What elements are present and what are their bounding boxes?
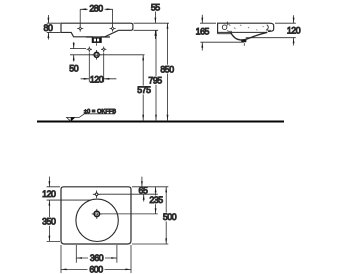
front view drain fitting — [92, 38, 101, 43]
side view detail marks — [234, 25, 264, 31]
dim 120 side extension lines — [246, 23, 296, 38]
svg-text:±0 = OKFFB: ±0 = OKFFB — [84, 109, 116, 115]
dim 120 front extension lines — [89, 53, 103, 83]
dim 600 extension lines — [61, 245, 131, 273]
svg-text:50: 50 — [69, 64, 78, 74]
dim 120 front arrows — [81, 78, 117, 80]
plan extension line drain level — [101, 213, 158, 215]
front view centerline dash — [96, 43, 98, 45]
side view underside bowl curve — [231, 32, 268, 40]
svg-text:795: 795 — [148, 76, 162, 86]
svg-text:280: 280 — [89, 4, 103, 14]
dim 850 line — [167, 23, 169, 120]
plan extension line top left — [47, 187, 60, 242]
front view left fixing hole cross — [87, 47, 92, 52]
plan extension line top right — [132, 186, 168, 188]
front view right fixing hole cross — [101, 47, 106, 52]
side view front inner line — [266, 25, 268, 31]
dim 360 line — [76, 257, 117, 259]
front view bowl underside line — [86, 36, 110, 38]
side view tap hole tick — [226, 22, 228, 26]
svg-text:350: 350 — [42, 217, 56, 227]
plan view bowl circle — [76, 199, 118, 241]
dim 120 side arrows — [293, 15, 295, 45]
svg-text:65: 65 — [139, 186, 148, 196]
dim 280 extension lines — [80, 9, 112, 26]
svg-text:360: 360 — [90, 253, 104, 263]
side view wall bracket line — [218, 33, 231, 35]
svg-text:575: 575 — [137, 85, 151, 95]
svg-text:120: 120 — [42, 189, 56, 199]
floor datum leader — [75, 114, 115, 118]
svg-text:850: 850 — [160, 64, 174, 74]
side view overflow circle — [222, 25, 227, 30]
dim 50 arrows — [73, 42, 75, 62]
dim 120 plan arrow top — [48, 177, 50, 187]
floor datum triangle — [67, 117, 75, 121]
extension line top edge right — [134, 22, 170, 24]
side view centerline dash — [243, 43, 245, 46]
plan view rectangle — [61, 187, 131, 244]
dim 600 line — [61, 268, 131, 270]
extension line drain level — [70, 48, 86, 50]
svg-text:120: 120 — [90, 75, 104, 85]
plan view shelf line — [47, 199, 91, 201]
dim 350 line — [48, 200, 50, 241]
svg-text:235: 235 — [149, 195, 163, 205]
dim 165 arrows — [201, 15, 203, 51]
front view basin outline — [61, 23, 133, 42]
plan view drain symbol — [92, 209, 102, 219]
plan view tap hole cross — [93, 191, 101, 199]
dim 80 extension lines — [47, 23, 60, 32]
dim 235 line — [155, 187, 157, 214]
front view drain outlet symbol — [92, 50, 102, 60]
dim 280 text — [88, 5, 105, 14]
side view drain bump — [241, 40, 246, 43]
floor line — [37, 120, 284, 122]
svg-text:500: 500 — [163, 212, 177, 222]
side view deck bottom line — [218, 31, 268, 33]
svg-text:165: 165 — [196, 26, 210, 36]
front view right tap hole cross — [110, 25, 116, 31]
svg-text:80: 80 — [44, 23, 53, 33]
dim 360 extension lines — [76, 245, 117, 263]
svg-text:600: 600 — [89, 264, 103, 274]
dim 55 upper arrow — [154, 12, 156, 24]
dim 80 arrows — [47, 15, 49, 40]
dim 280 line and arrows — [80, 8, 112, 10]
plan extension line bottom right — [132, 243, 168, 245]
dim 795 line — [155, 30, 157, 120]
extension line deck bottom right — [134, 29, 159, 31]
svg-text:120: 120 — [287, 26, 301, 36]
front view left tap hole cross — [77, 25, 83, 31]
dim 65 arrows — [141, 177, 143, 187]
plan extension line tap level — [100, 193, 158, 195]
side view front cap lower marks — [266, 29, 271, 32]
dim 575 line — [142, 55, 144, 121]
dim 55 lower arrow — [154, 30, 156, 39]
side view outline — [218, 23, 274, 33]
svg-text:55: 55 — [151, 2, 160, 12]
side view overflow lower marks — [227, 24, 232, 31]
dim 165 extension lines — [200, 23, 244, 42]
dim 500 line — [165, 187, 167, 244]
